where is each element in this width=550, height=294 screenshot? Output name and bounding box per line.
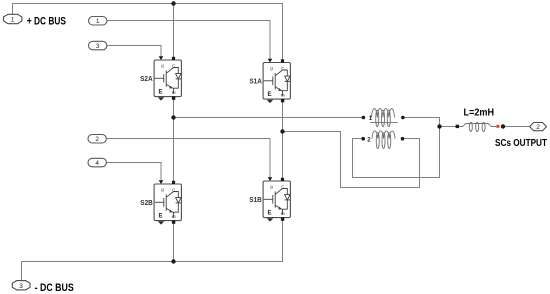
winding 1 (mutual inductance winding 1) [370, 109, 397, 127]
port +DC BUS connection port 1 [4, 14, 22, 23]
node junction left leg midpoint [171, 115, 175, 119]
svg-text:4: 4 [95, 160, 99, 167]
wire port1 to S1A gate [107, 21, 271, 60]
node junction right leg midpoint [280, 129, 284, 133]
wire winding 1 right terminal to node A [403, 118, 440, 127]
inport oval 3 [89, 41, 107, 50]
wire bottom rail from -DC BUS to S1B emitter [22, 218, 283, 280]
wire port4 to S2B gate [107, 163, 162, 181]
svg-text:L=2mH: L=2mH [464, 108, 495, 119]
wire S2B emitter down to bottom rail [173, 221, 175, 262]
winding 1 terminal dots and number [362, 116, 366, 120]
inductor L right port dot [501, 124, 505, 128]
inport oval 2 [88, 135, 106, 144]
wire port2 to S1B gate [107, 139, 271, 178]
transistor S2A (IGBT/Diode block) [154, 56, 181, 100]
svg-text:SCs OUTPUT: SCs OUTPUT [495, 138, 547, 149]
svg-text:S2B: S2B [140, 198, 153, 207]
port -DC BUS connection port 3 [12, 281, 30, 290]
inductor L right red marker [496, 125, 499, 128]
winding 2 terminal dots and number [361, 137, 365, 141]
svg-text:1: 1 [11, 17, 15, 24]
svg-text:S1A: S1A [249, 77, 262, 86]
inport oval 4 [88, 158, 106, 167]
wire winding 2 left terminal loop to node A [353, 128, 440, 178]
wire left leg midpoint to winding 1 left terminal [174, 117, 363, 119]
transistor S1B (IGBT/Diode block) [263, 177, 290, 221]
svg-text:1: 1 [369, 116, 373, 122]
svg-text:+ DC BUS: + DC BUS [27, 16, 66, 28]
wire S2A emitter to S2B collector (left leg midpoint) [173, 97, 175, 184]
transistor S2B (IGBT/Diode block) [154, 180, 181, 224]
svg-text:S1B: S1B [249, 195, 262, 204]
svg-text:- DC BUS: - DC BUS [35, 282, 74, 294]
wire from top rail junction down to S2A collector [173, 4, 175, 58]
svg-text:3: 3 [19, 283, 23, 290]
wire right leg midpoint to winding 2 right terminal [283, 132, 420, 188]
winding 2 (mutual inductance winding 2) [372, 131, 395, 149]
svg-text:3: 3 [96, 43, 100, 50]
inductor L=2mH coil [457, 122, 496, 131]
wire top rail from +DC BUS to S1A collector [13, 4, 283, 60]
wire node A to inductor L [440, 126, 457, 128]
inport oval 1 [89, 17, 107, 26]
wire port3 to S2A gate [107, 46, 162, 57]
transistor S1A (IGBT/Diode block) [263, 59, 290, 103]
svg-text:S2A: S2A [140, 74, 153, 83]
wire inductor L to SCs OUTPUT port [504, 126, 530, 128]
svg-text:2: 2 [95, 136, 99, 143]
node junction bottom rail / S2B emitter [171, 259, 175, 263]
node A junction winding1/winding2/L [437, 124, 441, 128]
svg-text:1: 1 [96, 18, 100, 25]
port SCs OUTPUT connection port 2 [530, 123, 547, 132]
node junction top rail / S2A collector [171, 1, 175, 5]
svg-text:2: 2 [367, 138, 371, 144]
svg-text:2: 2 [536, 124, 540, 131]
wire S1A emitter to S1B collector (right leg midpoint) [282, 99, 284, 181]
inductor L left port square [456, 125, 459, 128]
